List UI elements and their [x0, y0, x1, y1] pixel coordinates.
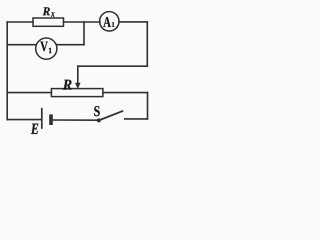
wire A1 to top-right corner — [119, 21, 147, 23]
label R — [63, 80, 72, 90]
wire Rx to A1 — [64, 21, 101, 23]
wire bottom left to battery — [7, 119, 41, 121]
label E — [31, 124, 38, 134]
wire left to rheostat — [7, 92, 51, 94]
slider arrow head — [75, 83, 81, 89]
wire battery to switch — [53, 119, 98, 121]
wire horizontal to slider — [78, 65, 148, 67]
switch S pivot dot — [97, 118, 101, 122]
switch S lever — [99, 111, 123, 121]
label Rx — [43, 7, 50, 15]
wire slider vertical — [77, 66, 79, 83]
wire left vertical — [6, 22, 8, 120]
wire right vertical upper — [146, 22, 148, 66]
label A1 — [103, 17, 111, 27]
wire V1 branch vertical up to Rx-A1 node — [83, 22, 85, 45]
wire rheostat to right — [103, 92, 148, 94]
ammeter A1 — [100, 12, 119, 31]
voltmeter V1 — [36, 38, 57, 59]
wire right vertical lower — [147, 93, 149, 119]
wire left to V1 — [7, 44, 36, 46]
wire V1 right — [57, 44, 84, 46]
wire bottom right to switch — [125, 118, 148, 120]
battery E long plate — [41, 108, 43, 129]
wire top-left to Rx — [7, 21, 33, 23]
rheostat R — [51, 89, 103, 97]
battery E thick plate — [49, 114, 53, 125]
resistor Rx — [33, 18, 64, 26]
label S — [94, 106, 99, 116]
label V1 — [40, 42, 48, 52]
